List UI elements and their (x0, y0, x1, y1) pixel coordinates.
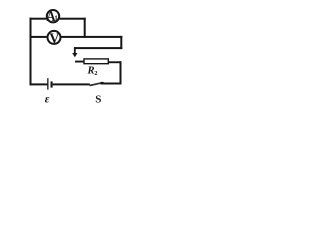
svg-text:S: S (95, 93, 101, 105)
svg-text:1: 1 (54, 13, 58, 23)
svg-text:2: 2 (94, 70, 97, 77)
svg-text:ε: ε (45, 94, 50, 106)
svg-text:V: V (49, 30, 60, 47)
